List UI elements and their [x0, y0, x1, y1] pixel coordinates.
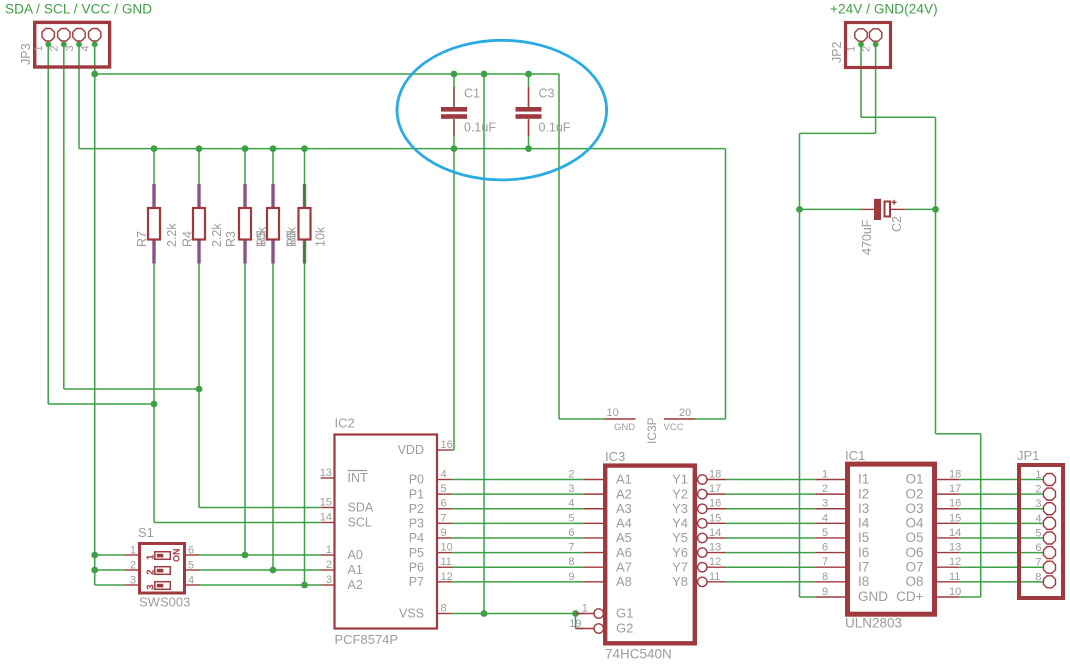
svg-text:IC3P: IC3P [645, 417, 659, 444]
svg-text:P5: P5 [409, 546, 424, 560]
svg-text:15: 15 [949, 512, 961, 524]
svg-text:11: 11 [441, 556, 452, 568]
svg-text:2: 2 [822, 483, 828, 495]
svg-text:O8: O8 [905, 574, 923, 589]
svg-text:5: 5 [822, 527, 828, 539]
svg-text:17: 17 [709, 483, 721, 495]
svg-text:P1: P1 [409, 487, 424, 501]
svg-text:6: 6 [568, 527, 574, 539]
svg-text:5: 5 [1035, 527, 1041, 539]
svg-text:11: 11 [949, 571, 960, 583]
svg-text:G1: G1 [616, 606, 633, 621]
svg-text:SCL: SCL [348, 516, 372, 530]
svg-text:Y2: Y2 [672, 486, 688, 501]
svg-text:1: 1 [145, 554, 156, 560]
svg-text:3: 3 [130, 575, 136, 587]
svg-text:2: 2 [130, 560, 136, 572]
svg-text:11: 11 [709, 571, 720, 583]
svg-text:GND: GND [614, 422, 635, 433]
svg-text:5: 5 [568, 512, 574, 524]
svg-text:10k: 10k [314, 226, 328, 247]
svg-text:IC1: IC1 [845, 448, 865, 463]
svg-text:JP3: JP3 [19, 43, 33, 65]
svg-text:A2: A2 [616, 486, 632, 501]
svg-text:16: 16 [709, 498, 721, 510]
svg-text:13: 13 [709, 542, 721, 554]
svg-text:5: 5 [441, 483, 447, 495]
svg-text:G2: G2 [616, 621, 633, 636]
svg-text:7: 7 [1035, 557, 1041, 569]
svg-text:74HC540N: 74HC540N [605, 647, 672, 662]
svg-text:IC2: IC2 [335, 416, 355, 431]
svg-text:6: 6 [188, 545, 194, 557]
svg-text:Y6: Y6 [672, 545, 688, 560]
svg-text:2.2k: 2.2k [165, 223, 179, 247]
svg-text:4: 4 [822, 512, 828, 524]
svg-text:6: 6 [1035, 542, 1041, 554]
svg-text:3: 3 [568, 483, 574, 495]
svg-text:P4: P4 [409, 531, 424, 545]
svg-text:6: 6 [441, 498, 447, 510]
svg-text:13: 13 [949, 542, 961, 554]
svg-text:15: 15 [320, 497, 332, 509]
svg-text:C2: C2 [890, 216, 904, 232]
svg-text:1: 1 [130, 545, 136, 557]
svg-text:P7: P7 [409, 575, 424, 589]
svg-text:+24V / GND(24V): +24V / GND(24V) [830, 2, 938, 17]
svg-text:4: 4 [568, 498, 574, 510]
svg-text:18: 18 [709, 469, 721, 481]
svg-text:1: 1 [326, 544, 332, 556]
svg-text:10: 10 [441, 542, 453, 554]
svg-text:12: 12 [709, 556, 721, 568]
svg-text:JP1: JP1 [1017, 448, 1039, 463]
svg-text:16: 16 [949, 498, 961, 510]
svg-text:A6: A6 [616, 545, 632, 560]
svg-text:PCF8574P: PCF8574P [335, 632, 399, 647]
svg-text:1: 1 [846, 46, 858, 52]
svg-text:O7: O7 [905, 559, 923, 574]
svg-text:13: 13 [320, 467, 332, 479]
svg-text:12: 12 [441, 571, 453, 583]
svg-text:ULN2803: ULN2803 [845, 616, 902, 631]
svg-text:4: 4 [80, 45, 92, 51]
svg-text:O3: O3 [905, 501, 923, 516]
svg-text:7: 7 [441, 512, 447, 524]
svg-text:1: 1 [33, 45, 45, 51]
svg-text:7: 7 [822, 556, 828, 568]
svg-text:5: 5 [188, 560, 194, 572]
svg-text:2: 2 [1035, 484, 1041, 496]
svg-text:18: 18 [949, 469, 961, 481]
svg-text:R5: R5 [255, 231, 269, 247]
svg-text:O6: O6 [905, 545, 923, 560]
svg-text:8: 8 [822, 571, 828, 583]
svg-text:10: 10 [949, 586, 961, 598]
svg-text:9: 9 [568, 571, 574, 583]
svg-text:8: 8 [441, 603, 447, 615]
svg-text:470uF: 470uF [860, 219, 874, 255]
svg-text:I5: I5 [858, 530, 869, 545]
svg-text:4: 4 [1035, 513, 1041, 525]
svg-text:1: 1 [582, 603, 588, 615]
svg-text:R6: R6 [285, 231, 299, 247]
svg-text:1: 1 [822, 469, 828, 481]
svg-text:Y1: Y1 [672, 472, 688, 487]
svg-text:A0: A0 [348, 548, 363, 562]
svg-text:17: 17 [949, 483, 961, 495]
svg-text:JP2: JP2 [830, 41, 844, 63]
svg-text:SDA / SCL / VCC / GND: SDA / SCL / VCC / GND [5, 2, 152, 17]
svg-text:O5: O5 [905, 530, 923, 545]
svg-text:A7: A7 [616, 559, 632, 574]
svg-text:VCC: VCC [664, 422, 684, 433]
svg-text:A8: A8 [616, 574, 632, 589]
svg-text:0.1uF: 0.1uF [539, 121, 571, 135]
svg-text:GND: GND [858, 589, 888, 604]
svg-text:A5: A5 [616, 530, 632, 545]
svg-text:3: 3 [1035, 498, 1041, 510]
svg-text:I7: I7 [858, 559, 869, 574]
svg-text:O2: O2 [905, 486, 923, 501]
svg-text:P2: P2 [409, 502, 424, 516]
svg-text:I2: I2 [858, 486, 869, 501]
svg-text:2.2k: 2.2k [210, 223, 224, 247]
svg-text:I4: I4 [858, 516, 870, 531]
svg-text:R3: R3 [224, 231, 238, 247]
svg-text:I8: I8 [858, 574, 869, 589]
svg-text:R7: R7 [135, 231, 149, 247]
svg-text:16: 16 [441, 439, 453, 451]
svg-text:IC3: IC3 [605, 449, 625, 464]
svg-text:10: 10 [607, 407, 619, 419]
svg-text:CD+: CD+ [896, 589, 923, 604]
svg-text:P3: P3 [409, 517, 424, 531]
svg-text:4: 4 [441, 469, 447, 481]
svg-text:14: 14 [949, 527, 961, 539]
svg-text:14: 14 [709, 527, 721, 539]
svg-text:3: 3 [326, 574, 332, 586]
svg-text:2: 2 [568, 469, 574, 481]
svg-text:3: 3 [145, 584, 156, 590]
svg-text:SWS003: SWS003 [139, 595, 190, 610]
svg-text:9: 9 [441, 527, 447, 539]
svg-text:3: 3 [822, 498, 828, 510]
svg-text:20: 20 [679, 407, 691, 419]
svg-text:19: 19 [569, 618, 581, 630]
svg-text:2: 2 [145, 569, 156, 575]
svg-text:C3: C3 [539, 87, 555, 101]
svg-text:S1: S1 [138, 525, 154, 540]
svg-text:14: 14 [320, 512, 332, 524]
svg-text:VSS: VSS [399, 607, 424, 621]
svg-text:P0: P0 [409, 473, 424, 487]
svg-text:15: 15 [709, 512, 721, 524]
svg-text:INT: INT [348, 471, 369, 485]
svg-text:2: 2 [49, 45, 61, 51]
svg-text:6: 6 [822, 542, 828, 554]
svg-text:Y4: Y4 [672, 516, 688, 531]
svg-text:A1: A1 [348, 563, 363, 577]
svg-text:R4: R4 [181, 231, 195, 247]
svg-text:I3: I3 [858, 501, 869, 516]
svg-text:C1: C1 [464, 87, 480, 101]
svg-text:A4: A4 [616, 516, 632, 531]
svg-text:O4: O4 [905, 516, 924, 531]
svg-text:SDA: SDA [348, 501, 374, 515]
svg-text:P6: P6 [409, 560, 424, 574]
svg-text:4: 4 [188, 575, 194, 587]
svg-text:7: 7 [568, 542, 574, 554]
svg-text:8: 8 [568, 556, 574, 568]
svg-text:A1: A1 [616, 472, 632, 487]
svg-text:Y7: Y7 [672, 559, 688, 574]
svg-text:12: 12 [949, 556, 961, 568]
svg-text:1: 1 [1035, 469, 1041, 481]
svg-text:A3: A3 [616, 501, 632, 516]
svg-text:Y3: Y3 [672, 501, 688, 516]
svg-text:ON: ON [172, 549, 182, 563]
svg-text:O1: O1 [905, 472, 923, 487]
svg-text:I1: I1 [858, 472, 869, 487]
svg-text:8: 8 [1035, 571, 1041, 583]
svg-text:2: 2 [326, 559, 332, 571]
svg-text:I6: I6 [858, 545, 869, 560]
svg-text:0.1uF: 0.1uF [464, 121, 496, 135]
svg-text:Y8: Y8 [672, 574, 688, 589]
svg-text:Y5: Y5 [672, 530, 688, 545]
svg-text:9: 9 [822, 586, 828, 598]
svg-text:A2: A2 [348, 578, 363, 592]
svg-text:VDD: VDD [398, 443, 424, 457]
